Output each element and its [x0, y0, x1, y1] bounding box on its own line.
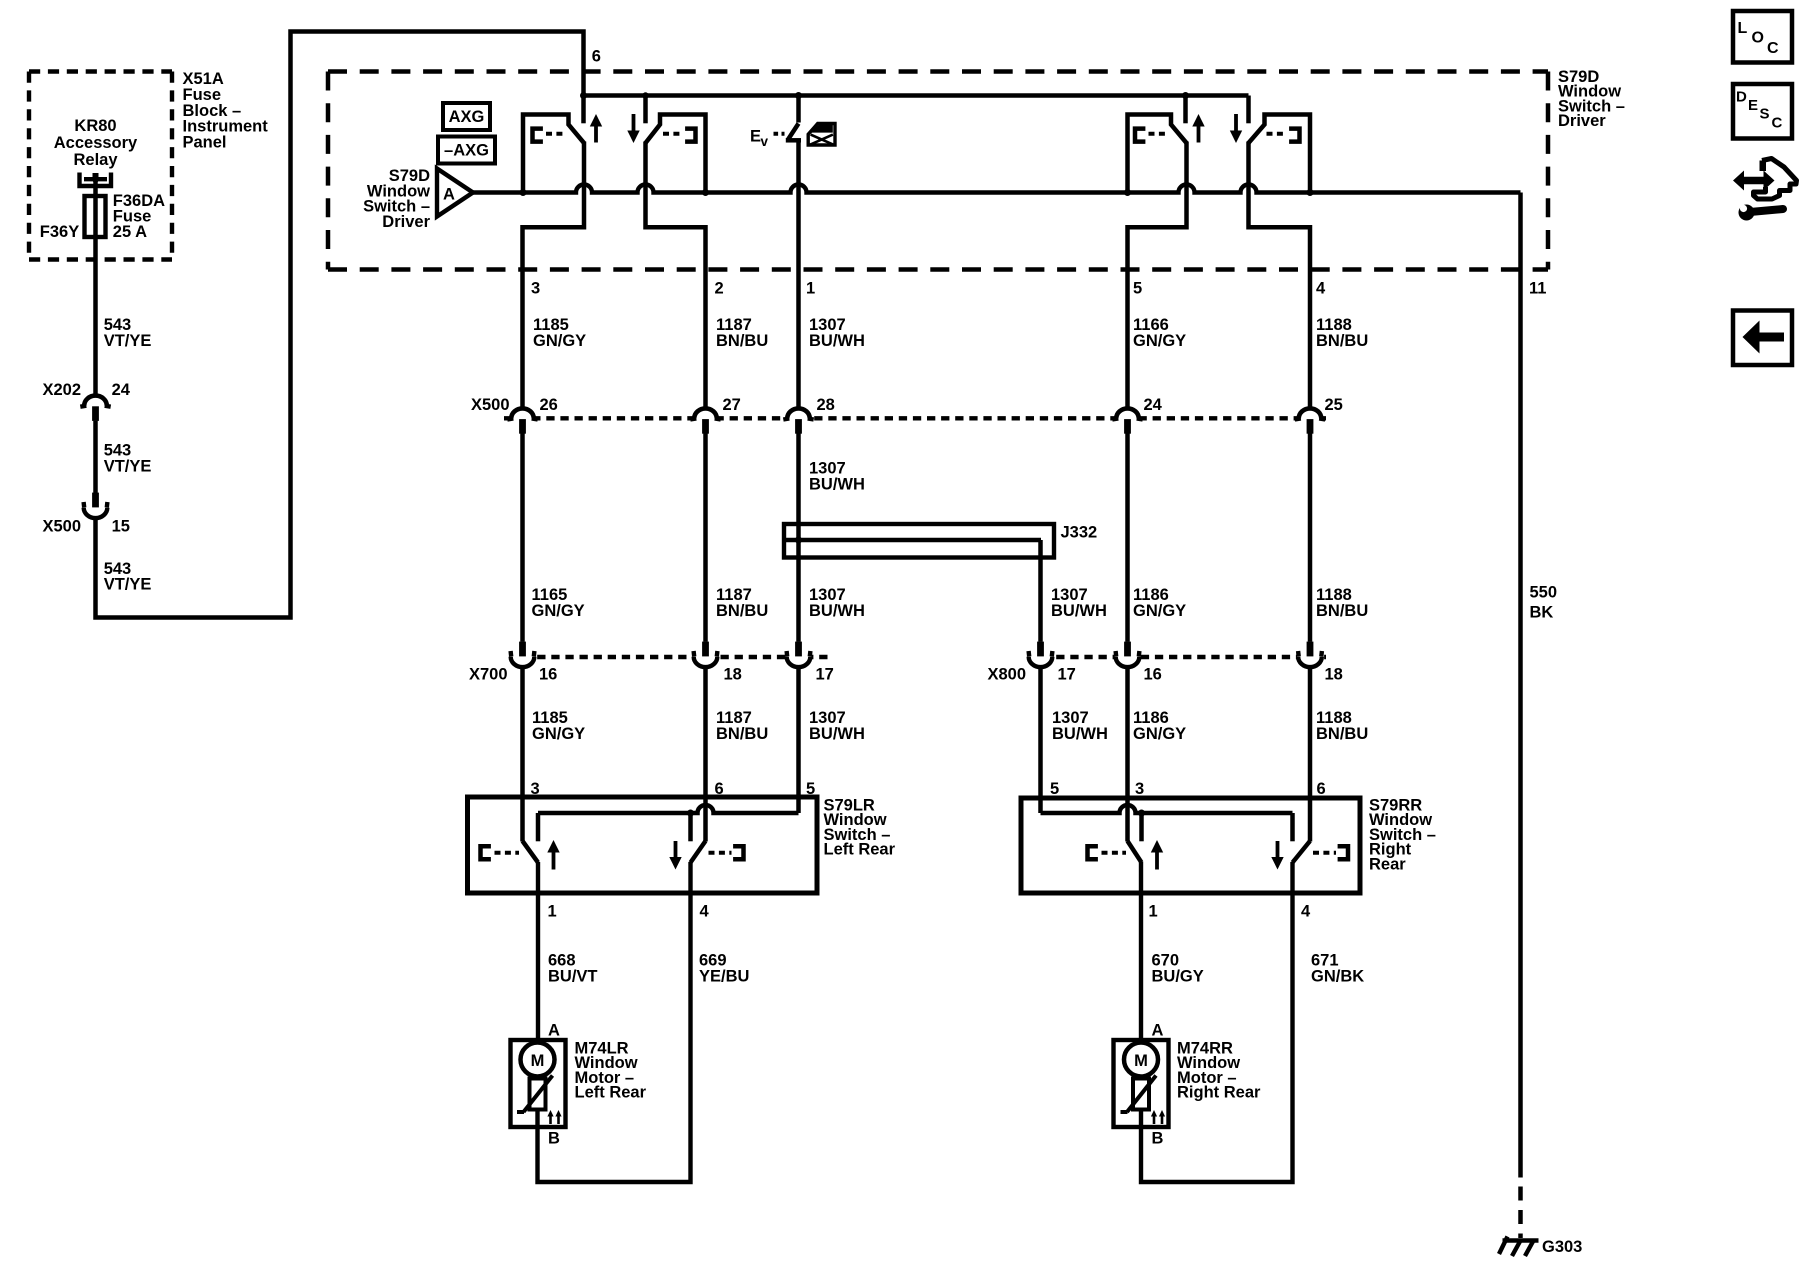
driver down switch 2 rest contact bracket: [1267, 132, 1284, 136]
svg-text:BU/WH: BU/WH: [809, 725, 865, 743]
driver up switch 2 feed stub: [1183, 96, 1188, 124]
svg-text:BN/BU: BN/BU: [1316, 602, 1368, 620]
wire 1166 X500-X800: [1125, 433, 1130, 642]
svg-text:4: 4: [1316, 280, 1326, 298]
motor M74RR symbol: [1124, 1043, 1158, 1077]
wire 669 YE/BU: [538, 862, 691, 1182]
S79D window switch driver dashed box: [328, 72, 1548, 270]
op-amp style driver output triangle A: [437, 169, 473, 217]
wire 1188 X500-X800: [1308, 433, 1313, 642]
junction dot feed right: [1182, 92, 1189, 99]
icon back arrow box: [1733, 311, 1792, 366]
svg-text:C: C: [1772, 115, 1783, 132]
express-down switch blade: [796, 96, 801, 123]
driver down switch 2 arrow: [1234, 114, 1238, 137]
S79RR down switch bracket: [1313, 851, 1336, 855]
svg-text:Driver: Driver: [382, 213, 430, 231]
S79RR up switch bracket: [1088, 846, 1098, 859]
svg-text:v: v: [761, 134, 769, 149]
svg-text:GN/GY: GN/GY: [1133, 725, 1186, 743]
svg-text:X202: X202: [43, 381, 82, 399]
svg-text:VT/YE: VT/YE: [104, 457, 152, 475]
S79LR up feed stub: [536, 813, 541, 841]
driver down switch feed stub: [643, 96, 648, 124]
S79LR down switch blade: [691, 841, 706, 863]
driver down switch rest contact bracket: [663, 132, 680, 136]
connector X700-17: [795, 642, 802, 657]
icon door-swap with wrench: [1733, 171, 1775, 191]
driver down switch housing (LR window): [646, 115, 706, 193]
icon DESC box: [1733, 84, 1792, 139]
S79LR up switch bracket: [481, 846, 491, 859]
driver down switch 2 feed stub: [1246, 96, 1251, 124]
svg-text:D: D: [1736, 89, 1747, 106]
svg-text:VT/YE: VT/YE: [104, 576, 152, 594]
AXG box: [443, 103, 490, 130]
svg-text:Left Rear: Left Rear: [575, 1084, 647, 1102]
driver down switch housing (RR window): [1249, 115, 1311, 193]
svg-text:C: C: [1767, 40, 1779, 57]
svg-text:BU/WH: BU/WH: [809, 332, 865, 350]
svg-text:11: 11: [1529, 280, 1546, 298]
junction dot feed left: [580, 92, 587, 99]
svg-text:A: A: [1152, 1022, 1164, 1040]
fuse block X51A dashed box: [29, 72, 172, 260]
motor M74LR symbol: [521, 1043, 555, 1077]
wire fuse feed: [93, 179, 98, 396]
express-down window icon: [808, 124, 835, 146]
wire 1307 to S79LR pin5: [796, 667, 801, 813]
wire driver pin4 output: [1249, 142, 1311, 407]
svg-text:24: 24: [1144, 396, 1163, 414]
svg-text:S: S: [1760, 106, 1770, 123]
driver up switch rest contact bracket: [533, 129, 543, 142]
svg-text:BU/WH: BU/WH: [809, 475, 865, 493]
svg-text:Rear: Rear: [1369, 855, 1406, 873]
svg-text:GN/BK: GN/BK: [1311, 967, 1364, 985]
svg-text:BN/BU: BN/BU: [716, 332, 768, 350]
svg-text:17: 17: [1058, 666, 1076, 684]
svg-text:17: 17: [816, 666, 834, 684]
icon LOC box: [1733, 11, 1792, 63]
svg-text:5: 5: [1133, 280, 1142, 298]
svg-text:X700: X700: [469, 666, 508, 684]
wire 1185 X500-X700: [520, 433, 525, 642]
S79LR internal feed line: [538, 805, 799, 813]
wire 668 BU/VT: [536, 862, 540, 1043]
S79RR down arrow: [1276, 841, 1280, 864]
svg-text:M: M: [531, 1052, 545, 1070]
svg-text:B: B: [548, 1130, 560, 1148]
wire 550 BK: [1518, 193, 1523, 1178]
svg-text:3: 3: [1135, 780, 1144, 798]
svg-text:2: 2: [715, 280, 724, 298]
svg-text:Relay: Relay: [73, 151, 118, 169]
svg-text:BN/BU: BN/BU: [716, 602, 768, 620]
junction dot S79RR feed: [1138, 810, 1145, 817]
connector X202 pin 24 inline: [84, 396, 107, 406]
wire driver pin3 output: [523, 142, 585, 407]
svg-text:5: 5: [1050, 780, 1059, 798]
S79RR up feed stub: [1139, 813, 1144, 841]
svg-text:O: O: [1752, 30, 1764, 47]
motor M74LR box: [511, 1040, 566, 1127]
svg-text:Panel: Panel: [183, 133, 227, 151]
svg-text:–AXG: –AXG: [444, 142, 489, 160]
junction dot feed mid: [642, 92, 648, 98]
junction dot feed express: [795, 92, 802, 99]
wire 670 BU/GY: [1139, 862, 1143, 1043]
S79LR down feed stub: [688, 813, 693, 841]
driver up switch arrow: [594, 120, 598, 143]
S79LR down arrow: [674, 841, 678, 864]
connector X500-27: [694, 408, 717, 418]
wire J332 drop 1307: [1038, 540, 1043, 642]
junction dot S79LR feed: [687, 810, 694, 817]
connector X500 pin 15 inline: [92, 493, 99, 508]
driver up switch 2 arrow: [1197, 120, 1201, 143]
svg-text:BU/WH: BU/WH: [1052, 725, 1108, 743]
svg-text:1: 1: [1149, 903, 1158, 921]
svg-text:L: L: [1738, 20, 1748, 37]
connector X500-24: [1116, 408, 1139, 418]
svg-text:550: 550: [1530, 584, 1558, 602]
svg-text:YE/BU: YE/BU: [699, 967, 749, 985]
S79RR internal feed line: [1041, 805, 1293, 813]
svg-text:B: B: [1152, 1130, 1164, 1148]
connector row X800 dashed line: [1028, 655, 1326, 659]
connector row X500 dashed line: [504, 416, 1326, 420]
connector X500-25: [1299, 408, 1322, 418]
wire 1185 to S79LR pin3: [520, 667, 525, 842]
wire 543 segment 2: [93, 421, 98, 498]
svg-text:E: E: [750, 128, 761, 146]
svg-text:A: A: [443, 186, 455, 204]
wire 1186 to S79RR pin3: [1125, 667, 1130, 842]
svg-text:Left Rear: Left Rear: [824, 841, 896, 859]
junction dot J332: [795, 537, 802, 544]
svg-text:BU/WH: BU/WH: [809, 602, 865, 620]
svg-text:24: 24: [112, 381, 131, 399]
wire ground dashed lead: [1518, 1187, 1523, 1239]
svg-text:BN/BU: BN/BU: [1316, 332, 1368, 350]
svg-text:26: 26: [540, 396, 558, 414]
svg-text:BK: BK: [1530, 603, 1554, 621]
S79RR up switch blade: [1128, 841, 1142, 863]
-AXG box: [438, 137, 495, 164]
svg-text:4: 4: [1301, 903, 1311, 921]
S79LR up arrow: [552, 846, 556, 870]
S79RR down switch blade: [1293, 841, 1311, 863]
wire driver pin1 output: [796, 140, 801, 407]
driver up switch housing (LR window): [523, 115, 584, 193]
svg-text:1: 1: [806, 280, 815, 298]
svg-text:J332: J332: [1061, 524, 1098, 542]
wire 543 to top feed riser: [96, 32, 584, 618]
fuse F36DA 25A: [85, 196, 106, 237]
driver up switch housing (RR window): [1128, 115, 1187, 193]
svg-text:16: 16: [539, 666, 557, 684]
connector X800-18: [1307, 642, 1314, 657]
driver down switch arrow: [632, 114, 636, 137]
svg-text:BU/GY: BU/GY: [1152, 967, 1204, 985]
svg-text:M: M: [1134, 1052, 1148, 1070]
wire 1188 to S79RR pin6: [1308, 667, 1313, 842]
feed wire top: [584, 93, 1249, 97]
S79LR up switch blade: [523, 841, 539, 863]
svg-text:E: E: [1748, 97, 1758, 114]
svg-text:6: 6: [592, 48, 601, 66]
wire 1187 to S79LR pin6: [703, 667, 708, 842]
wire 1187 X500-X700: [703, 433, 708, 642]
svg-text:A: A: [548, 1022, 560, 1040]
svg-text:27: 27: [723, 396, 741, 414]
svg-text:BN/BU: BN/BU: [716, 725, 768, 743]
svg-text:15: 15: [112, 518, 130, 536]
svg-text:18: 18: [724, 666, 742, 684]
connector row X700 dashed line: [509, 655, 829, 659]
svg-text:X500: X500: [43, 518, 82, 536]
svg-text:F36Y: F36Y: [40, 223, 79, 241]
svg-text:1: 1: [548, 903, 557, 921]
S79RR down feed stub: [1290, 813, 1295, 841]
connector X700-16: [519, 642, 526, 657]
svg-text:BN/BU: BN/BU: [1316, 725, 1368, 743]
splice pack J332: [784, 524, 1054, 558]
svg-text:Accessory: Accessory: [54, 134, 138, 152]
svg-text:16: 16: [1144, 666, 1162, 684]
connector X700-18: [702, 642, 709, 657]
junction dot common 3: [1124, 189, 1131, 196]
S79LR window switch box: [468, 797, 818, 893]
driver switch common line from A: [473, 185, 1521, 193]
ground G303: [1503, 1238, 1539, 1242]
driver up switch feed stub: [581, 96, 586, 124]
svg-text:4: 4: [700, 903, 710, 921]
svg-text:Driver: Driver: [1558, 112, 1606, 130]
wire 671 GN/BK: [1141, 862, 1293, 1182]
S79RR up arrow: [1155, 846, 1159, 870]
svg-text:GN/GY: GN/GY: [533, 332, 586, 350]
S79RR window switch box: [1021, 798, 1360, 893]
svg-text:GN/GY: GN/GY: [532, 725, 585, 743]
junction dot common 4: [1307, 189, 1314, 196]
svg-text:GN/GY: GN/GY: [1133, 602, 1186, 620]
wire driver pin5 output: [1128, 142, 1187, 407]
motor M74RR box: [1114, 1040, 1169, 1127]
svg-text:BU/WH: BU/WH: [1051, 602, 1107, 620]
junction dot common 2: [702, 189, 709, 196]
svg-text:GN/GY: GN/GY: [1133, 332, 1186, 350]
svg-text:AXG: AXG: [449, 108, 485, 126]
svg-text:25 A: 25 A: [113, 223, 147, 241]
wire 1307 to S79RR pin5: [1038, 667, 1043, 813]
connector X800-16: [1124, 642, 1131, 657]
svg-text:BU/VT: BU/VT: [548, 967, 598, 985]
svg-text:KR80: KR80: [74, 117, 116, 135]
svg-text:18: 18: [1325, 666, 1343, 684]
svg-text:VT/YE: VT/YE: [104, 332, 152, 350]
junction dot common 1: [520, 189, 527, 196]
connector X500-26: [511, 408, 534, 418]
S79LR down switch bracket: [709, 851, 732, 855]
svg-text:X500: X500: [471, 396, 510, 414]
svg-text:6: 6: [1317, 780, 1326, 798]
svg-text:3: 3: [531, 280, 540, 298]
relay KR80 contact: [80, 173, 112, 187]
wire 1307 X500-J332-X700: [796, 433, 801, 642]
svg-text:X800: X800: [988, 666, 1027, 684]
svg-text:25: 25: [1325, 396, 1343, 414]
connector X500-28: [787, 408, 810, 418]
svg-text:GN/GY: GN/GY: [532, 602, 585, 620]
svg-text:Right Rear: Right Rear: [1177, 1084, 1261, 1102]
driver up switch 2 rest contact bracket: [1135, 129, 1145, 142]
svg-text:28: 28: [817, 396, 835, 414]
connector X800-17: [1037, 642, 1044, 657]
wire driver pin2 output: [646, 142, 706, 407]
svg-text:G303: G303: [1542, 1238, 1582, 1256]
